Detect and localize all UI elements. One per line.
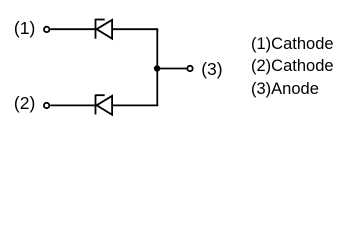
wire D1 to vertical bus [112,28,158,30]
wire pin1 to diode D1 [50,28,94,30]
svg-text:(1)Cathode: (1)Cathode [251,35,334,53]
terminal 2 circle [44,103,49,108]
svg-text:(3)Anode: (3)Anode [251,80,319,98]
diode D2 cathode bar [95,95,97,115]
wire junction to pin3 [157,68,186,70]
wire D2 to vertical bus [112,104,158,106]
svg-text:(2): (2) [14,93,35,113]
terminal 1 circle [44,27,49,32]
diode D2 cathode top hook [96,94,105,96]
svg-text:(1): (1) [14,18,35,38]
svg-text:(3): (3) [201,59,222,79]
diode D1 cathode bar [95,19,97,39]
vertical bus wire [156,29,158,105]
terminal 3 circle [187,66,192,71]
diode D2 triangle [97,96,113,115]
diode D1 cathode top hook [96,19,105,21]
junction dot [154,65,160,71]
diode D1 triangle [97,20,113,39]
svg-text:(2)Cathode: (2)Cathode [251,57,334,75]
wire pin2 to diode D2 [50,104,94,106]
